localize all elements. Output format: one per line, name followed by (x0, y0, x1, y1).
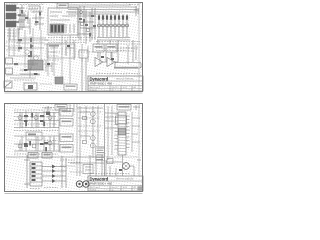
svg-text:PMP 9000 / 460: PMP 9000 / 460 (90, 82, 112, 86)
svg-text:Endstufe: Endstufe (90, 89, 97, 92)
svg-text:04: 04 (112, 90, 114, 92)
svg-text:SERVICE MANUAL: SERVICE MANUAL (116, 77, 135, 80)
svg-text:A3: A3 (134, 186, 136, 189)
svg-text:Dynacord: Dynacord (90, 176, 109, 181)
svg-text:Dynacord: Dynacord (90, 76, 109, 81)
svg-text:Netzteil: Netzteil (90, 189, 97, 192)
svg-text:Blatt 1 von 2: Blatt 1 von 2 (90, 86, 101, 89)
svg-text:SERVICE MANUAL: SERVICE MANUAL (116, 177, 135, 180)
svg-text:Blatt 2 von 2: Blatt 2 von 2 (90, 186, 101, 189)
svg-text:PMP 9000 / 460: PMP 9000 / 460 (90, 182, 112, 186)
svg-text:05: 05 (112, 190, 114, 192)
svg-text:A3: A3 (134, 86, 136, 89)
svg-text:10.97: 10.97 (123, 87, 128, 89)
svg-text:10.97: 10.97 (123, 187, 128, 189)
